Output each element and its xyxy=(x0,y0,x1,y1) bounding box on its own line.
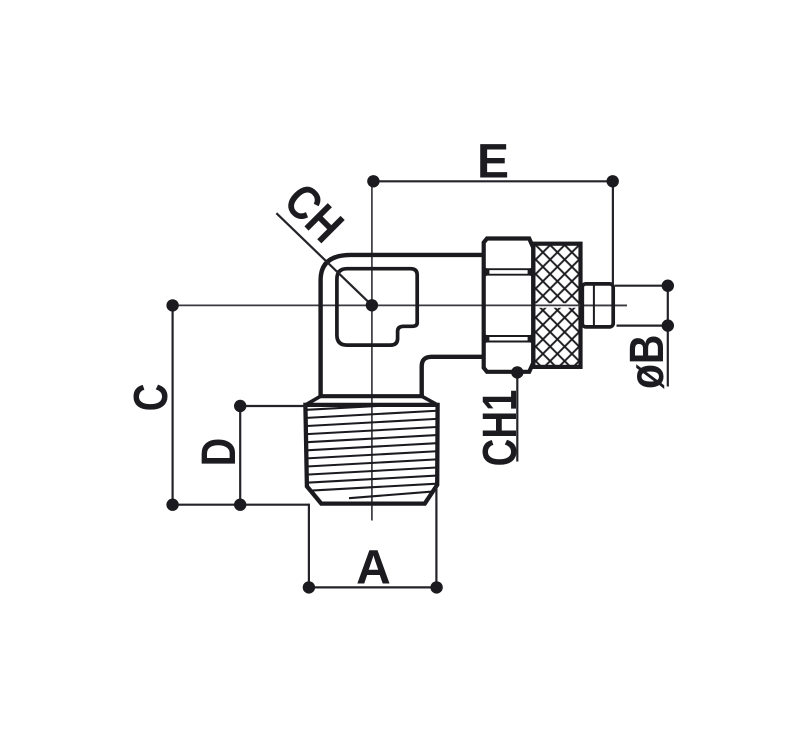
hex nut facet lines upper xyxy=(484,267,532,277)
label CH1 xyxy=(474,390,527,467)
thread lines xyxy=(303,403,440,499)
tube stub xyxy=(582,284,613,327)
label B diameter xyxy=(621,335,674,389)
svg-text:øB: øB xyxy=(621,335,674,389)
horizontal centerline xyxy=(173,304,627,306)
svg-text:A: A xyxy=(356,542,391,595)
flange between body and thread xyxy=(306,396,438,405)
label CH xyxy=(274,174,353,253)
label D xyxy=(192,438,246,466)
dimension B xyxy=(615,286,668,387)
knurled nut xyxy=(533,244,627,367)
svg-text:E: E xyxy=(477,136,509,189)
dimension C xyxy=(173,305,309,504)
elbow body inner cavity outline xyxy=(337,269,417,345)
hex nut facet lines lower xyxy=(484,334,532,344)
dimension E dots xyxy=(367,175,619,187)
threaded male end outline xyxy=(305,405,437,504)
label A xyxy=(356,542,391,595)
dimension CH leader xyxy=(276,213,378,311)
dimension CH1 leader xyxy=(511,366,523,461)
label E xyxy=(477,136,509,189)
dimension D xyxy=(240,406,306,505)
elbow body outer outline xyxy=(321,255,484,396)
svg-text:C: C xyxy=(125,384,178,412)
svg-text:CH1: CH1 xyxy=(474,390,527,467)
label C xyxy=(125,384,178,412)
dimension E line xyxy=(372,181,613,285)
vertical centerline xyxy=(371,181,373,520)
svg-text:D: D xyxy=(192,438,246,466)
hex nut outline xyxy=(484,239,534,372)
dimension A xyxy=(309,486,437,592)
